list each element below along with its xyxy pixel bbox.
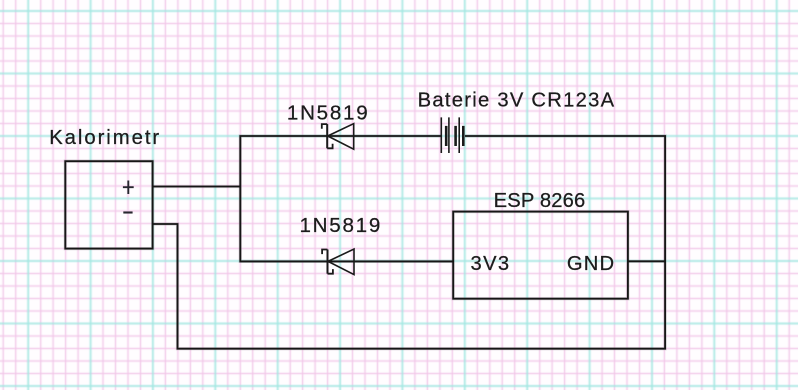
- svg-text:Kalorimetr: Kalorimetr: [49, 127, 159, 149]
- svg-text:GND: GND: [567, 253, 614, 275]
- svg-text:1N5819: 1N5819: [287, 101, 368, 124]
- svg-text:3V3: 3V3: [471, 253, 510, 275]
- svg-text:ESP 8266: ESP 8266: [494, 190, 586, 212]
- svg-text:1N5819: 1N5819: [300, 214, 381, 237]
- svg-text:Baterie 3V CR123A: Baterie 3V CR123A: [418, 90, 615, 112]
